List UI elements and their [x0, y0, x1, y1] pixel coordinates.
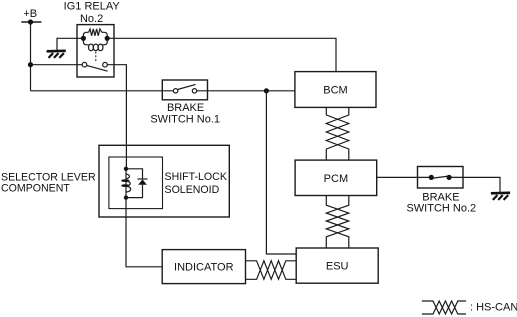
wire PCM to brake switch No.2: [377, 176, 432, 178]
HS-CAN bus PCM to ESU: [326, 196, 349, 249]
ground G1: [47, 51, 66, 58]
node +B terminal bar: [21, 21, 41, 23]
svg-text:INDICATOR: INDICATOR: [174, 262, 234, 274]
relay switch blade: [87, 65, 108, 71]
svg-text:SOLENOID: SOLENOID: [165, 184, 220, 196]
wire +B vertical: [30, 22, 32, 91]
svg-text:SWITCH No.1: SWITCH No.1: [150, 113, 220, 125]
svg-text:SWITCH No.2: SWITCH No.2: [406, 203, 476, 215]
svg-text:PCM: PCM: [324, 173, 348, 185]
relay coil terminal dots: [81, 36, 86, 41]
ground G2: [491, 193, 510, 200]
brake switch No.1 contacts: [173, 89, 177, 93]
svg-text:ESU: ESU: [326, 261, 349, 273]
junction dot relay switch feed: [28, 62, 33, 67]
brake switch No.1 blade: [178, 84, 196, 89]
INDICATOR box: [162, 250, 245, 284]
diode cathode bar: [138, 178, 148, 180]
solenoid diode branch: [126, 169, 143, 179]
wire brake switch No.2 to ground: [449, 177, 500, 192]
svg-text:No.2: No.2: [80, 13, 103, 25]
solenoid node dots: [124, 167, 128, 171]
relay switch contacts: [82, 62, 87, 67]
svg-text:IG1 RELAY: IG1 RELAY: [64, 1, 121, 13]
relay coil resistor zigzag: [89, 29, 102, 36]
relay armature dashed link: [95, 52, 97, 63]
shift-lock solenoid inner box: [109, 157, 163, 209]
HS-CAN legend symbol: [422, 301, 466, 314]
svg-text:SELECTOR LEVER: SELECTOR LEVER: [1, 171, 96, 183]
selector lever component label: [1, 171, 96, 194]
relay coil inductor loops: [89, 44, 104, 51]
wire ground to relay coil: [57, 38, 83, 50]
svg-text:SHIFT-LOCK: SHIFT-LOCK: [165, 171, 227, 183]
HS-CAN bus BCM to PCM: [326, 107, 349, 160]
shift-lock solenoid label: [165, 171, 227, 196]
ESU box: [296, 248, 378, 283]
BCM box: [295, 72, 376, 108]
relay U: IG1 RELAY No.2 box: [77, 25, 114, 77]
wire relay coil to BCM: [107, 38, 336, 71]
junction dot brake signal: [264, 88, 269, 93]
wire brake switch No.1 to BCM: [197, 90, 295, 92]
wire solenoid to indicator: [126, 198, 162, 267]
solenoid coil turns: [121, 174, 131, 192]
svg-text:BCM: BCM: [323, 85, 347, 97]
IG1 RELAY No.2 label: [64, 1, 121, 26]
diode triangle: [138, 179, 147, 184]
svg-text:+B: +B: [23, 8, 37, 20]
PCM box: [295, 160, 377, 195]
brake switch No.2 box: [418, 167, 464, 189]
relay coil capsule right: [102, 32, 108, 45]
brake switch No.2 contacts: [429, 175, 434, 180]
wire relay switch to solenoid: [107, 65, 126, 169]
svg-text:COMPONENT: COMPONENT: [1, 183, 70, 195]
brake switch No.2 label: [406, 191, 476, 214]
wire to brake switch No.1: [31, 90, 174, 92]
solenoid main line: [125, 169, 127, 198]
HS-CAN bus INDICATOR to ESU: [246, 261, 297, 280]
svg-text:BRAKE: BRAKE: [167, 102, 204, 114]
relay coil capsule left: [83, 32, 88, 45]
brake switch No.2 blade: [431, 176, 449, 178]
svg-text:: HS-CAN: : HS-CAN: [470, 302, 517, 314]
wire brake signal to ESU: [266, 91, 296, 254]
brake switch No.1 box: [162, 80, 207, 100]
brake switch No.1 label: [150, 102, 220, 125]
wire to relay switch: [31, 64, 83, 66]
svg-text:BRAKE: BRAKE: [422, 191, 459, 203]
selector lever component box: [99, 145, 229, 217]
junction dot at +B: [28, 19, 33, 24]
